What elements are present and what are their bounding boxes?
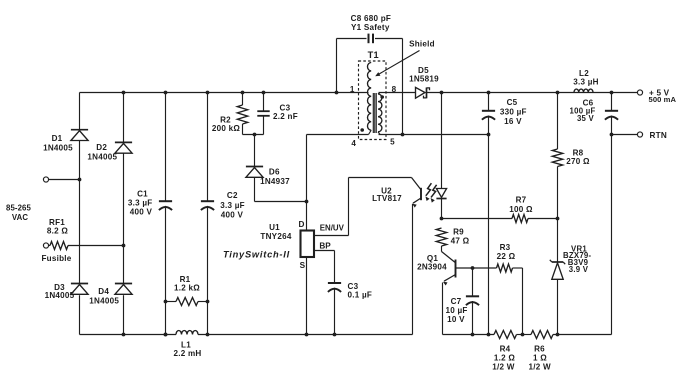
wire clamp join xyxy=(243,134,264,136)
wire C6 branch xyxy=(611,93,613,335)
diode D4 xyxy=(115,284,132,295)
svg-text:C8 680 pF: C8 680 pF xyxy=(351,14,392,23)
resistor R7 xyxy=(512,215,528,223)
wire pin5 return xyxy=(379,134,489,136)
svg-text:T1: T1 xyxy=(368,50,379,60)
node drain junction xyxy=(305,200,309,204)
label D3 xyxy=(45,283,75,300)
label C5 xyxy=(500,98,527,126)
svg-text:10 µF: 10 µF xyxy=(445,306,467,315)
svg-text:3.3 µF: 3.3 µF xyxy=(128,199,153,208)
wire R7 leads xyxy=(442,218,558,220)
wire RTN xyxy=(612,134,638,136)
wire D1 branch xyxy=(79,93,81,335)
transformer T1 primary winding xyxy=(368,63,372,131)
resistor R1 xyxy=(176,298,198,306)
label BP xyxy=(319,242,331,251)
wire bottom primary rail xyxy=(80,334,413,336)
svg-text:2.2 nF: 2.2 nF xyxy=(273,112,298,121)
svg-text:R6: R6 xyxy=(534,344,545,353)
node C2 top xyxy=(206,91,210,95)
svg-text:16 V: 16 V xyxy=(504,117,522,126)
svg-text:8.2 Ω: 8.2 Ω xyxy=(47,226,69,235)
label VR1 xyxy=(563,244,592,274)
svg-text:C1: C1 xyxy=(137,190,148,199)
wire C8 right xyxy=(375,39,403,135)
diode D2 xyxy=(115,142,132,153)
label RF1 xyxy=(47,218,69,236)
wire R9 bottom xyxy=(441,246,443,252)
svg-text:C5: C5 xyxy=(507,98,518,107)
label pin 5 xyxy=(390,138,395,147)
wire C1 branch xyxy=(165,93,167,335)
U2 phototransistor xyxy=(412,178,422,208)
wire pin8 lead xyxy=(379,92,416,94)
node R3 bottom xyxy=(521,333,525,337)
node C8 right xyxy=(401,133,405,137)
AC input terminal upper xyxy=(43,177,48,182)
svg-text:47 Ω: 47 Ω xyxy=(451,236,470,245)
label C8 xyxy=(351,14,392,32)
svg-text:3.3 µH: 3.3 µH xyxy=(573,78,599,87)
output terminal +5V xyxy=(637,90,642,95)
label D2 xyxy=(87,143,117,161)
op-amp U1 body xyxy=(301,231,315,258)
capacitor C2 xyxy=(201,201,214,210)
wire secondary bottom link xyxy=(378,132,380,135)
T1 secondary polarity dot xyxy=(380,95,384,99)
node C1 bottom xyxy=(164,333,168,337)
wire R8 leads xyxy=(557,93,559,219)
label EN/UV xyxy=(320,224,345,233)
svg-text:VAC: VAC xyxy=(12,213,28,222)
node C5 top xyxy=(487,91,491,95)
svg-text:330 µF: 330 µF xyxy=(500,107,527,116)
transformer T1 box xyxy=(359,61,387,140)
label R7 xyxy=(509,195,533,214)
label R1 xyxy=(174,275,200,293)
capacitor C8 xyxy=(369,34,374,44)
svg-text:D1: D1 xyxy=(52,134,63,143)
transformer T1 secondary winding xyxy=(378,94,382,132)
node R2 top xyxy=(241,91,245,95)
transistor Q1 xyxy=(442,252,456,335)
svg-text:0.1 µF: 0.1 µF xyxy=(348,291,373,300)
node LED bottom xyxy=(440,217,444,221)
node RTN junction xyxy=(610,133,614,137)
node base C7 tap xyxy=(471,266,475,270)
label C1 xyxy=(128,190,153,217)
node R1 right xyxy=(206,300,210,304)
node D2 top xyxy=(122,91,126,95)
svg-text:3.9 V: 3.9 V xyxy=(569,265,589,274)
node C8 left xyxy=(335,91,339,95)
svg-text:EN/UV: EN/UV xyxy=(320,224,345,233)
transformer T1 core xyxy=(373,93,376,133)
wire RF1 right lead xyxy=(68,245,124,247)
label L2 xyxy=(573,69,599,87)
T1 primary polarity dot xyxy=(360,128,364,132)
label Fusible xyxy=(41,254,71,263)
svg-text:Y1 Safety: Y1 Safety xyxy=(351,23,390,32)
node C7 bottom xyxy=(471,333,475,337)
label R4 xyxy=(492,344,515,371)
node C5 bottom xyxy=(487,333,491,337)
wire EN/UV xyxy=(314,178,349,236)
svg-text:5: 5 xyxy=(390,138,395,147)
svg-text:10 V: 10 V xyxy=(447,315,465,324)
svg-text:D2: D2 xyxy=(96,143,107,152)
U2 light arrows xyxy=(425,183,436,202)
resistor R2 xyxy=(237,105,247,124)
svg-text:400 V: 400 V xyxy=(130,207,153,216)
label Q1 xyxy=(417,254,447,272)
node S bottom xyxy=(305,333,309,337)
label C3 0.1uF xyxy=(348,282,373,299)
label RTN xyxy=(650,131,667,140)
svg-text:85-265: 85-265 xyxy=(6,204,31,213)
label C7 xyxy=(445,297,467,324)
svg-text:R7: R7 xyxy=(516,195,527,204)
wire opto collector xyxy=(349,177,412,179)
resistor R3 xyxy=(497,264,513,272)
svg-text:400 V: 400 V xyxy=(221,210,244,219)
wire pin4 xyxy=(307,134,369,136)
wire BP xyxy=(314,251,335,284)
svg-text:1/2 W: 1/2 W xyxy=(529,363,552,371)
label D6 xyxy=(260,167,290,186)
svg-text:S: S xyxy=(300,261,306,270)
wire D2 branch xyxy=(123,93,125,335)
node C3 clamp top xyxy=(262,91,266,95)
label R8 xyxy=(566,148,590,166)
node R1 left xyxy=(164,300,168,304)
label pin 4 xyxy=(351,139,356,148)
label +5V xyxy=(649,88,677,104)
svg-text:TinySwitch-II: TinySwitch-II xyxy=(223,249,290,259)
wire C5 branch xyxy=(488,93,490,335)
svg-text:1.2 Ω: 1.2 Ω xyxy=(494,354,516,363)
label U1 D pin xyxy=(299,220,305,229)
capacitor C1 xyxy=(159,201,172,210)
wire R2 bottom lead xyxy=(242,124,244,135)
svg-text:2.2 mH: 2.2 mH xyxy=(173,349,201,358)
resistor RF1 xyxy=(50,242,68,250)
AC input terminal lower xyxy=(43,243,48,248)
label pin 1 xyxy=(350,85,355,94)
node D5 out xyxy=(440,91,444,95)
shield arrow xyxy=(375,51,419,77)
wire LED top xyxy=(441,93,443,189)
svg-text:500 mA: 500 mA xyxy=(649,95,677,104)
diode D5 xyxy=(416,87,430,98)
label R2 xyxy=(212,115,241,133)
label 85-265 VAC xyxy=(6,204,31,222)
label R3 xyxy=(497,243,516,261)
wire S pin xyxy=(306,257,308,334)
svg-text:1N4005: 1N4005 xyxy=(87,152,117,161)
svg-text:C7: C7 xyxy=(451,297,462,306)
wire primary bottom link xyxy=(369,130,372,134)
label C3 2.2nF xyxy=(273,103,298,121)
node C1 top xyxy=(164,91,168,95)
node VR1 bottom xyxy=(556,333,560,337)
capacitor C7 xyxy=(466,296,479,305)
wire LED bottom xyxy=(441,199,443,219)
wire top primary rail xyxy=(80,92,369,94)
wire RF1 left lead xyxy=(49,245,50,247)
label C2 xyxy=(220,191,245,220)
svg-text:1 Ω: 1 Ω xyxy=(533,354,547,363)
svg-text:100 Ω: 100 Ω xyxy=(509,205,533,214)
wire R1 leads xyxy=(166,301,208,303)
label D5 xyxy=(409,66,439,84)
wire drain vertical xyxy=(306,135,308,231)
resistor R6 xyxy=(531,331,553,339)
wire C8 left xyxy=(337,39,367,93)
svg-text:4: 4 xyxy=(351,139,356,148)
wire bottom secondary rail xyxy=(443,334,612,336)
svg-text:BP: BP xyxy=(319,242,331,251)
label U1 xyxy=(260,223,291,241)
svg-text:1N5819: 1N5819 xyxy=(409,75,439,84)
wire opto emitter xyxy=(412,204,414,335)
svg-text:R8: R8 xyxy=(573,148,584,157)
node L1 right xyxy=(206,333,210,337)
label R9 xyxy=(451,227,470,245)
output terminal RTN xyxy=(637,132,642,137)
resistor R4 xyxy=(494,331,517,339)
svg-text:C2: C2 xyxy=(227,191,238,200)
svg-text:R3: R3 xyxy=(500,243,511,252)
node clamp join xyxy=(253,133,257,137)
label L1 xyxy=(173,340,201,358)
wire C3 BP bottom xyxy=(334,288,336,335)
LED U2 diode xyxy=(436,189,446,199)
svg-text:TNY264: TNY264 xyxy=(260,232,291,241)
diode D1 xyxy=(71,130,88,141)
wire VR1 top lead xyxy=(557,219,559,263)
wire C2 branch xyxy=(207,93,209,335)
label U1 S pin xyxy=(300,261,306,270)
inductor L1 xyxy=(176,331,198,335)
capacitor C6 xyxy=(605,111,618,120)
inductor L2 xyxy=(574,89,593,92)
label TinySwitch-II xyxy=(223,249,290,259)
wire C7 branch xyxy=(472,268,474,335)
resistor R8 xyxy=(552,149,562,167)
svg-text:1N4005: 1N4005 xyxy=(43,143,73,152)
svg-text:Shield: Shield xyxy=(409,40,435,49)
svg-text:1N4005: 1N4005 xyxy=(45,291,75,300)
svg-text:1N4937: 1N4937 xyxy=(260,177,290,186)
label U2 xyxy=(372,187,402,204)
wire secondary top link xyxy=(378,93,380,95)
node L2 out xyxy=(610,91,614,95)
node RF1 junction xyxy=(122,244,126,248)
wire D6 top lead xyxy=(254,135,256,167)
svg-text:1.2 kΩ: 1.2 kΩ xyxy=(174,283,200,292)
label R6 xyxy=(529,344,552,371)
label T1 xyxy=(368,50,379,60)
wire C3 clamp branch xyxy=(263,93,265,135)
zener diode VR1 xyxy=(550,260,565,280)
node C3 BP bottom xyxy=(333,333,337,337)
label pin 8 xyxy=(392,85,397,94)
wire output rail xyxy=(427,92,638,94)
svg-text:RTN: RTN xyxy=(650,131,667,140)
node R7 right xyxy=(556,217,560,221)
label D4 xyxy=(89,287,119,305)
svg-text:LTV817: LTV817 xyxy=(372,194,402,203)
svg-text:R4: R4 xyxy=(500,344,511,353)
diode D6 xyxy=(246,167,263,178)
svg-text:D6: D6 xyxy=(269,167,280,176)
wire R2 top lead xyxy=(242,93,244,106)
capacitor C5 xyxy=(482,111,495,120)
node C5 return xyxy=(487,133,491,137)
svg-text:1N4005: 1N4005 xyxy=(89,296,119,305)
node AC upper junction xyxy=(78,178,82,182)
node D4 bottom xyxy=(122,333,126,337)
svg-text:35 V: 35 V xyxy=(577,114,595,123)
svg-text:R9: R9 xyxy=(453,227,464,236)
resistor R9 xyxy=(436,228,446,246)
svg-text:200 kΩ: 200 kΩ xyxy=(212,124,241,133)
svg-text:2N3904: 2N3904 xyxy=(417,263,447,272)
label Shield xyxy=(409,40,435,49)
svg-text:22 Ω: 22 Ω xyxy=(497,252,516,261)
wire D6 bottom lead xyxy=(255,177,307,201)
node R8 top xyxy=(556,91,560,95)
diode D3 xyxy=(71,284,88,295)
svg-text:1/2 W: 1/2 W xyxy=(492,363,515,371)
svg-text:270 Ω: 270 Ω xyxy=(566,157,590,166)
svg-text:1: 1 xyxy=(350,85,355,94)
label D1 xyxy=(43,134,73,153)
wire AC upper xyxy=(49,179,80,181)
svg-text:3.3 µF: 3.3 µF xyxy=(220,201,245,210)
capacitor C3 2.2nF xyxy=(257,111,269,116)
svg-text:D: D xyxy=(299,220,305,229)
svg-text:Fusible: Fusible xyxy=(41,254,71,263)
node L1 left xyxy=(164,333,168,337)
svg-text:D4: D4 xyxy=(98,287,109,296)
wire VR1 bottom lead xyxy=(557,279,559,334)
wire Q1 base xyxy=(456,268,523,335)
capacitor C3 0.1uF xyxy=(328,283,341,292)
label C6 xyxy=(570,99,596,124)
